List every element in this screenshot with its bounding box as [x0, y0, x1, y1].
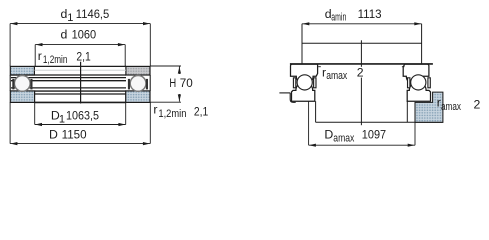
label d1 1146,5: [61, 7, 110, 24]
extension line D1 left: [34, 102, 36, 124]
cage tab left-inner: [314, 78, 316, 88]
svg-text:amax: amax: [333, 132, 354, 144]
label D 1150: [49, 128, 87, 142]
label Damax 1097: [324, 128, 386, 145]
cage bar right-outer: [146, 79, 148, 90]
raceway line lower: [35, 90, 126, 92]
dimension Damax line: [309, 144, 415, 147]
raceway line 2: [11, 77, 126, 79]
cage tab left-outer: [293, 78, 295, 88]
shaft top line: [302, 42, 422, 44]
label d 1060: [61, 28, 97, 42]
shaft left edge: [301, 24, 303, 64]
ball left: [14, 76, 30, 92]
extension line right outer upper: [149, 24, 151, 67]
shaft washer right: [403, 64, 429, 84]
svg-text:1063,5: 1063,5: [66, 109, 99, 123]
svg-text:1060: 1060: [72, 28, 97, 42]
extension line Damax right: [414, 122, 416, 145]
bore face line top: [34, 65, 126, 67]
svg-text:1: 1: [67, 12, 73, 24]
cage bar left-outer: [12, 79, 14, 90]
H dimension extension top: [150, 65, 181, 67]
extension line d left: [34, 45, 36, 67]
washer bottom-right: [126, 91, 150, 103]
raceway line 3: [11, 80, 126, 82]
svg-text:2: 2: [357, 66, 364, 80]
H dimension arrows: [178, 66, 181, 101]
extension line D1 right: [125, 102, 127, 124]
washer bottom-left: [10, 91, 34, 103]
svg-text:d: d: [61, 28, 68, 42]
extension line left outer lower: [9, 102, 11, 143]
ball right: [411, 75, 426, 90]
extension line left outer upper: [9, 24, 11, 67]
ball right: [130, 76, 146, 92]
cage rail line: [11, 87, 126, 89]
svg-text:2,1: 2,1: [194, 104, 209, 118]
housing bottom line: [316, 121, 443, 123]
housing bore wall right: [406, 101, 408, 122]
housing bore wall left: [315, 101, 317, 122]
label r12min top: [38, 49, 68, 66]
centerline upper: [360, 40, 362, 67]
cage tab right-inner: [408, 78, 410, 88]
washer seat line: [35, 93, 126, 95]
dimension d line: [35, 43, 125, 46]
centerline lower: [360, 78, 362, 126]
svg-text:1097: 1097: [362, 128, 386, 142]
svg-text:2: 2: [474, 98, 481, 112]
washer top-right: [126, 66, 150, 75]
washer top-left: [10, 66, 34, 75]
svg-text:1113: 1113: [358, 7, 382, 21]
shaft washer left: [291, 64, 318, 84]
housing shoulder block shaded: [415, 92, 443, 122]
bearing outer edge right: [149, 75, 151, 91]
svg-text:2,1: 2,1: [76, 49, 91, 63]
dimension damin line: [302, 22, 422, 25]
svg-text:amax: amax: [326, 70, 347, 82]
ball left: [297, 75, 312, 90]
housing washer left: [292, 82, 315, 101]
svg-text:r: r: [153, 102, 157, 116]
svg-text:D: D: [324, 128, 333, 142]
svg-text:amax: amax: [441, 101, 461, 113]
bearing outer edge left: [9, 75, 11, 91]
label damin 1113: [325, 7, 382, 24]
svg-text:1146,5: 1146,5: [76, 7, 110, 21]
svg-text:1: 1: [59, 113, 65, 125]
svg-text:D: D: [49, 128, 58, 142]
dimension D line: [10, 142, 150, 145]
dimension D1 line: [35, 123, 126, 126]
label ramax middle: [322, 65, 348, 82]
label H 70: [169, 76, 193, 90]
shaft washer left bore chamfer: [318, 66, 321, 68]
housing shoulder line left: [279, 92, 290, 94]
label D1 1063,5: [51, 109, 99, 126]
shaft right edge: [421, 24, 423, 64]
shaft washer right bore chamfer: [402, 66, 405, 68]
cage tab right-outer: [428, 78, 430, 88]
break leader line: [80, 62, 82, 104]
housing bore edge left: [290, 93, 296, 102]
svg-text:70: 70: [180, 76, 193, 90]
bore chamfer line faint: [34, 69, 126, 71]
svg-text:1150: 1150: [62, 128, 87, 142]
cage bar right-inner: [128, 79, 130, 90]
svg-text:1,2min: 1,2min: [43, 54, 68, 66]
bore face line bottom: [35, 101, 126, 103]
svg-text:amin: amin: [331, 12, 346, 24]
extension line Damax left: [308, 101, 310, 145]
svg-text:H: H: [169, 76, 176, 90]
svg-text:1,2min: 1,2min: [158, 108, 186, 120]
extension line right outer lower: [149, 102, 151, 143]
label r12min bottom: [153, 102, 186, 120]
cage bar left-inner: [30, 79, 32, 90]
label ramax bottom right: [437, 96, 462, 113]
svg-text:r: r: [38, 49, 42, 63]
bearing contact line: [290, 63, 433, 65]
raceway line 1: [11, 74, 126, 76]
dimension d1 line: [10, 22, 150, 25]
H dimension extension bottom: [150, 101, 181, 103]
housing washer right: [407, 82, 430, 101]
extension line d right: [124, 45, 126, 67]
